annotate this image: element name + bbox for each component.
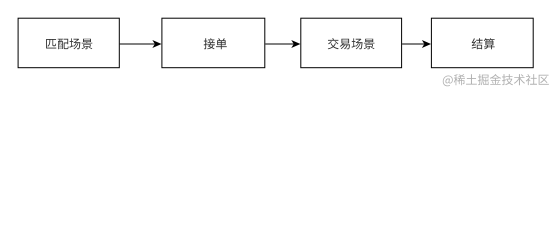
box2 label "接单"	[204, 38, 227, 49]
box3 label "交易场景"	[328, 38, 375, 49]
box2 rect 接单	[162, 18, 265, 67]
box1 rect 匹配场景	[18, 18, 119, 67]
box4 label "结算"	[472, 38, 495, 49]
arrow 1: box1 to box2	[120, 40, 162, 48]
arrow 3: box3 to box4	[402, 40, 431, 48]
arrow 2: box2 to box3	[265, 40, 300, 48]
box1 label "匹配场景"	[46, 38, 92, 49]
watermark "@稀土掘金技术社区"	[443, 74, 549, 86]
box4 rect 结算	[431, 18, 533, 67]
flowchart diagram	[0, 0, 552, 93]
box3 rect 交易场景	[301, 18, 402, 67]
